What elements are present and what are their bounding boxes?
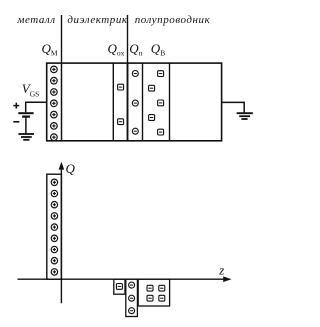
svg-text:металл: металл — [16, 14, 55, 26]
svg-text:QВ: QВ — [151, 41, 165, 58]
svg-text:Qп: Qп — [129, 41, 142, 58]
svg-text:Qox: Qox — [108, 41, 125, 58]
svg-text:полупроводник: полупроводник — [135, 14, 211, 26]
svg-text:Q: Q — [66, 161, 76, 176]
svg-text:диэлектрик: диэлектрик — [67, 14, 127, 26]
svg-text:VGS: VGS — [22, 81, 40, 98]
svg-text:z: z — [218, 263, 224, 278]
svg-text:QМ: QМ — [42, 41, 58, 58]
